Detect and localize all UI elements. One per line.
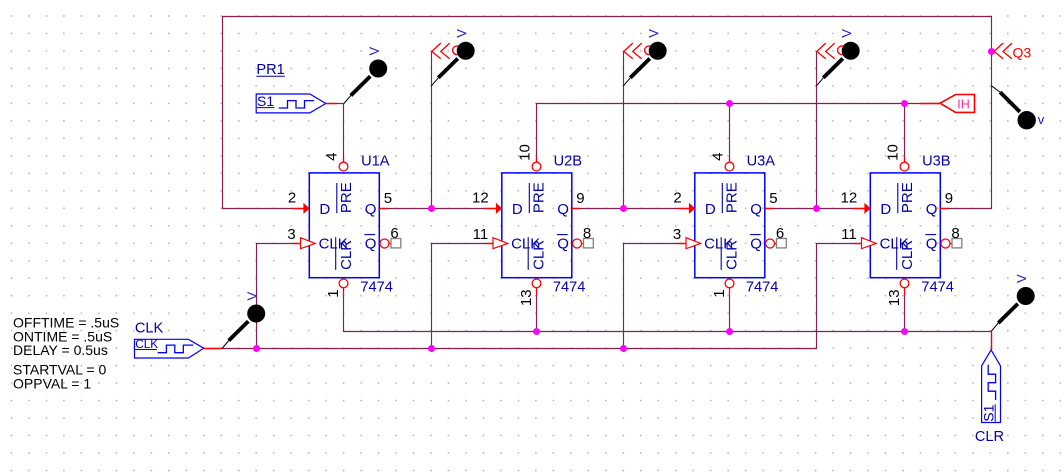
svg-text:V: V — [1014, 274, 1029, 283]
label CLR — [975, 429, 1004, 445]
wire feedback loop: U3B Q to U1A D via top — [223, 17, 992, 209]
svg-text:7474: 7474 — [360, 280, 392, 296]
wire U3B PRE branch — [904, 104, 906, 163]
svg-text:U2B: U2B — [554, 154, 582, 170]
pin 4 (PRE) of U1A — [323, 153, 348, 171]
pin 3 (CLK) of U1A — [287, 226, 315, 249]
probe on PR1 net — [344, 47, 387, 104]
svg-text:Q: Q — [557, 201, 569, 218]
wire U1A CLK branch — [257, 244, 310, 349]
wire U1A Q to U2B D — [379, 208, 502, 210]
probe on CLR net — [992, 274, 1035, 331]
wire IH net trunk — [537, 104, 941, 163]
svg-text:13: 13 — [518, 289, 535, 306]
svg-text:11: 11 — [473, 226, 489, 243]
pin 11 (CLK) of U2B — [473, 226, 508, 249]
svg-text:DELAY = 0.5us: DELAY = 0.5us — [13, 342, 108, 358]
svg-text:Q: Q — [926, 235, 938, 252]
pin 11 (CLK) of U3B — [841, 226, 876, 249]
label CLK — [135, 320, 164, 336]
pin 10 (PRE) of U2B — [516, 144, 541, 171]
wire probe stub at U1A Q net — [431, 52, 433, 209]
svg-text:7474: 7474 — [746, 280, 778, 296]
wire U2B Q to U3A D — [572, 208, 695, 210]
pin 5 (Q) of U1A — [379, 190, 392, 209]
svg-text:CLR: CLR — [975, 429, 1004, 445]
pin 9 (Q) of U2B — [572, 190, 585, 209]
pin 12 (D) of U3B — [841, 190, 871, 214]
junction node 9 — [620, 345, 627, 352]
svg-text:Q: Q — [750, 201, 762, 218]
svg-text:CLK: CLK — [135, 337, 158, 351]
net connector at probe 4 stub — [817, 43, 847, 59]
junction node 12 — [901, 328, 908, 335]
svg-text:2: 2 — [673, 190, 681, 207]
svg-text:6: 6 — [776, 225, 784, 242]
pin 3 (CLK) of U3A — [673, 226, 701, 249]
pin 6 (Qbar, unconnected) of U1A — [380, 225, 401, 248]
svg-text:PRE: PRE — [530, 182, 547, 213]
value 7474 — [746, 280, 778, 296]
net connector at probe 2 stub — [432, 43, 462, 59]
junction node 2 — [620, 205, 627, 212]
svg-text:4: 4 — [323, 153, 340, 161]
net connector Q3 — [994, 43, 1031, 60]
pin 5 (Q) of U3A — [765, 190, 778, 209]
svg-text:CLR: CLR — [723, 240, 740, 270]
junction node 10 — [533, 328, 540, 335]
svg-text:V: V — [646, 29, 661, 38]
svg-text:IH: IH — [957, 97, 970, 111]
net connector at probe 3 stub — [624, 43, 654, 59]
svg-text:10: 10 — [516, 144, 533, 161]
pin 12 (D) of U2B — [472, 190, 502, 214]
pin 2 (D) of U3A — [673, 190, 695, 214]
clock source CLK — [135, 337, 222, 358]
svg-text:PRE: PRE — [899, 182, 916, 213]
pin 2 (D) of U1A — [288, 190, 310, 214]
wire S1 to U1A PRE — [326, 104, 344, 163]
pin 10 (PRE) of U3B — [884, 144, 909, 171]
svg-text:12: 12 — [472, 190, 489, 207]
svg-text:9: 9 — [576, 190, 584, 207]
svg-text:CLR: CLR — [899, 240, 916, 270]
svg-text:U3A: U3A — [747, 154, 776, 170]
probe on CLK net — [222, 292, 265, 349]
wire U3A CLR branch — [729, 296, 731, 332]
svg-text:5: 5 — [384, 190, 392, 207]
junction node 7 — [253, 345, 260, 352]
junction node 11 — [726, 328, 733, 335]
probe on Q3 net — [992, 86, 1045, 130]
svg-text:PRE: PRE — [723, 182, 740, 213]
svg-text:2: 2 — [288, 190, 296, 207]
svg-text:5: 5 — [769, 190, 777, 207]
label U1A — [361, 154, 390, 170]
junction node 4 — [988, 48, 995, 55]
svg-text:13: 13 — [886, 289, 903, 306]
svg-text:11: 11 — [841, 226, 857, 243]
svg-text:U1A: U1A — [361, 154, 390, 170]
svg-text:PR1: PR1 — [256, 62, 284, 78]
label PR1 — [256, 62, 284, 78]
svg-text:Q: Q — [750, 235, 762, 252]
svg-text:D: D — [319, 201, 330, 218]
pin 13 (CLR) of U3B — [886, 279, 909, 306]
pin 9 (Q) of U3B — [940, 190, 953, 209]
svg-text:D: D — [705, 201, 716, 218]
svg-text:1: 1 — [711, 289, 728, 297]
wire U2B CLK branch — [432, 244, 502, 349]
flip-flop U2B (7474) body — [502, 173, 572, 278]
svg-text:Q: Q — [365, 235, 377, 252]
svg-text:Q: Q — [557, 235, 569, 252]
svg-text:3: 3 — [673, 226, 681, 243]
svg-text:v: v — [1038, 112, 1045, 127]
wire U2B CLR branch — [536, 296, 538, 332]
wire CLR bus — [344, 296, 992, 350]
flip-flop U3A (7474) body — [695, 173, 765, 278]
pin 8 (Qbar, unconnected) of U3B — [941, 225, 962, 248]
digital source S1 (PR1) — [256, 93, 337, 113]
svg-text:S1: S1 — [980, 404, 996, 421]
svg-text:PRE: PRE — [338, 182, 355, 213]
flip-flop U1A (7474) body — [309, 173, 379, 278]
svg-text:6: 6 — [390, 225, 398, 242]
pin 8 (Qbar, unconnected) of U2B — [573, 225, 594, 248]
junction node 3 — [813, 205, 820, 212]
label U3A — [747, 154, 776, 170]
svg-text:4: 4 — [709, 153, 726, 161]
svg-text:7474: 7474 — [921, 280, 953, 296]
label U3B — [922, 154, 950, 170]
value 7474 — [553, 280, 585, 296]
svg-text:8: 8 — [951, 225, 959, 242]
svg-text:D: D — [880, 201, 891, 218]
pin 1 (CLR) of U3A — [711, 279, 734, 298]
wire probe stub at U3A Q net — [816, 52, 818, 209]
svg-text:12: 12 — [841, 190, 858, 207]
junction node 6 — [901, 100, 908, 107]
svg-text:Q: Q — [365, 201, 377, 218]
svg-text:D: D — [512, 201, 523, 218]
svg-text:7474: 7474 — [553, 280, 585, 296]
net tag IH — [920, 95, 975, 113]
svg-text:Q: Q — [926, 201, 938, 218]
svg-text:V: V — [839, 29, 854, 38]
svg-text:1: 1 — [325, 289, 342, 297]
svg-text:CLK: CLK — [135, 320, 164, 336]
svg-text:9: 9 — [945, 190, 953, 207]
svg-text:OPPVAL = 1: OPPVAL = 1 — [13, 375, 91, 391]
pin 6 (Qbar, unconnected) of U3A — [766, 225, 787, 248]
svg-text:V: V — [366, 47, 381, 56]
svg-text:10: 10 — [884, 144, 901, 161]
wire CLK bus — [204, 244, 871, 349]
wire U3A Q to U3B D — [765, 208, 871, 210]
junction node 5 — [726, 100, 733, 107]
label U2B — [554, 154, 582, 170]
svg-text:Q3: Q3 — [1013, 44, 1032, 60]
svg-text:3: 3 — [287, 226, 295, 243]
value 7474 — [360, 280, 392, 296]
probe on Q0 net — [432, 29, 475, 86]
annotation text block — [13, 315, 119, 392]
flip-flop U3B (7474) body — [870, 173, 940, 278]
value 7474 — [921, 280, 953, 296]
svg-text:V: V — [244, 292, 259, 301]
svg-text:8: 8 — [583, 225, 591, 242]
svg-text:CLR: CLR — [338, 240, 355, 270]
wire U3B CLR branch — [904, 296, 906, 332]
svg-text:V: V — [454, 29, 469, 38]
digital source S1 (CLR), rotated — [980, 333, 1000, 423]
pin 1 (CLR) of U1A — [325, 279, 348, 298]
probe on Q1 net — [624, 29, 667, 86]
pin 13 (CLR) of U2B — [518, 279, 541, 306]
wire U3A PRE branch — [729, 104, 731, 163]
wire probe stub at U2A Q net — [623, 52, 625, 209]
svg-text:CLR: CLR — [530, 240, 547, 270]
wire U3A CLK branch — [624, 244, 695, 349]
junction node 8 — [428, 345, 435, 352]
svg-text:U3B: U3B — [922, 154, 950, 170]
pin 4 (PRE) of U3A — [709, 153, 734, 171]
probe on Q2 net — [817, 29, 860, 86]
junction node 1 — [428, 205, 435, 212]
svg-text:S1: S1 — [257, 93, 274, 109]
